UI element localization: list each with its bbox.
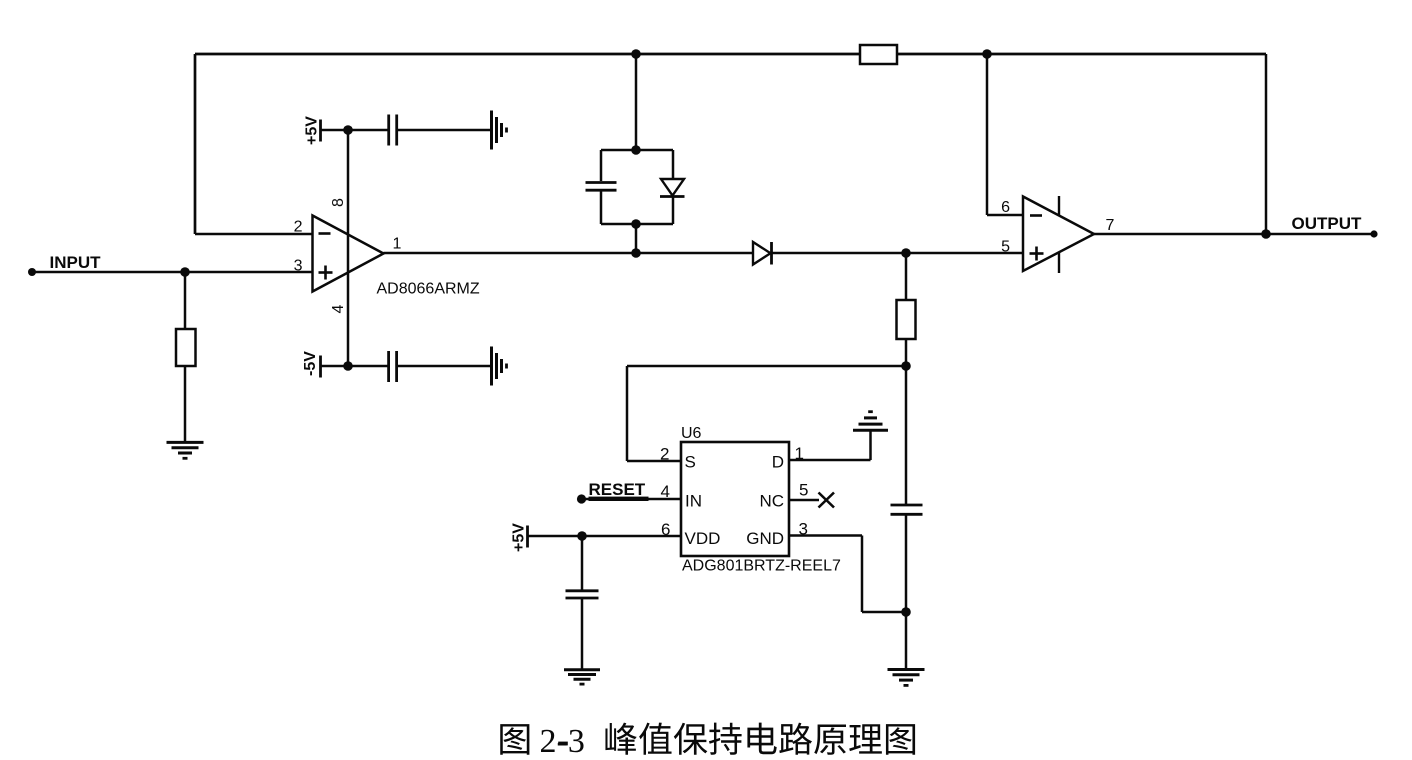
svg-text:3: 3 (294, 258, 303, 275)
svg-text:2: 2 (294, 219, 303, 236)
svg-text:NC: NC (759, 492, 784, 511)
svg-text:IN: IN (685, 492, 702, 511)
svg-text:6: 6 (1001, 199, 1010, 216)
svg-text:4: 4 (661, 482, 670, 501)
svg-text:1: 1 (795, 444, 804, 463)
svg-text:6: 6 (661, 520, 670, 539)
svg-text:2-3: 2-3 (540, 723, 585, 760)
svg-text:RESET: RESET (589, 480, 646, 499)
svg-text:+5V: +5V (304, 116, 321, 145)
svg-text:-5V: -5V (302, 351, 319, 376)
svg-text:4: 4 (330, 305, 347, 314)
svg-text:3: 3 (799, 520, 808, 539)
svg-text:S: S (685, 453, 696, 472)
svg-text:U6: U6 (681, 425, 702, 442)
svg-text:1: 1 (393, 236, 402, 253)
svg-text:OUTPUT: OUTPUT (1292, 214, 1363, 233)
svg-text:AD8066ARMZ: AD8066ARMZ (377, 281, 480, 298)
svg-text:ADG801BRTZ-REEL7: ADG801BRTZ-REEL7 (682, 558, 841, 575)
svg-text:INPUT: INPUT (50, 253, 102, 272)
svg-text:VDD: VDD (685, 529, 721, 548)
svg-text:+5V: +5V (511, 523, 528, 552)
svg-text:D: D (772, 453, 784, 472)
svg-text:GND: GND (746, 529, 784, 548)
svg-text:2: 2 (660, 445, 669, 464)
svg-text:8: 8 (330, 198, 347, 207)
svg-text:5: 5 (1001, 239, 1010, 256)
svg-text:5: 5 (799, 481, 808, 500)
svg-text:7: 7 (1106, 217, 1115, 234)
